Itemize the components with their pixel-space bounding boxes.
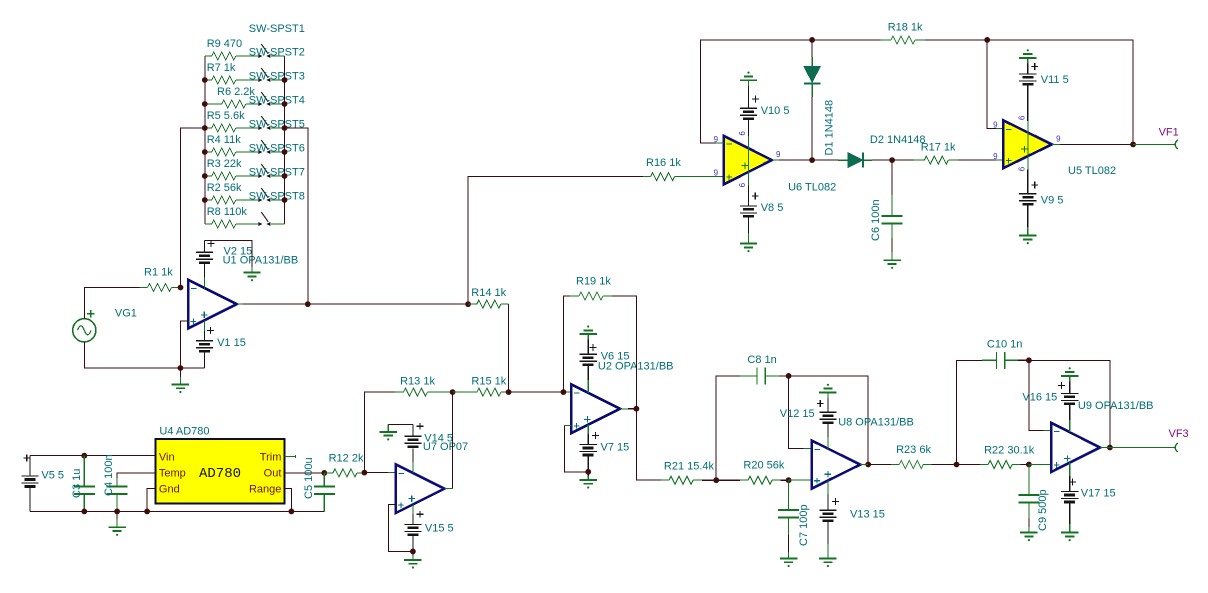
wire U9 output xyxy=(1100,447,1175,449)
svg-text:V1 15: V1 15 xyxy=(217,337,246,349)
svg-text:VG1: VG1 xyxy=(115,308,137,320)
svg-text:V8 5: V8 5 xyxy=(761,202,784,214)
svg-text:V6 15: V6 15 xyxy=(601,350,630,362)
svg-text:Gnd: Gnd xyxy=(159,484,180,496)
svg-text:R13 1k: R13 1k xyxy=(400,376,435,388)
node V7 ground junction xyxy=(585,469,591,475)
svg-text:V12 15: V12 15 xyxy=(780,408,815,420)
label SW-SPST4 xyxy=(249,95,305,107)
svg-text:R1 1k: R1 1k xyxy=(144,267,173,279)
capacitor C5 100u xyxy=(303,457,335,511)
node R1/feedback junction xyxy=(178,285,184,291)
svg-text:SW-SPST6: SW-SPST6 xyxy=(249,143,305,155)
svg-text:U6 TL082: U6 TL082 xyxy=(788,181,836,193)
svg-text:SW-SPST4: SW-SPST4 xyxy=(249,95,305,107)
wire U9 feedback xyxy=(1029,360,1110,447)
label SW-SPST7 xyxy=(249,167,305,179)
ground V13 xyxy=(819,558,836,567)
svg-text:C8 1n: C8 1n xyxy=(747,354,776,366)
wire U6 output xyxy=(772,159,812,161)
op-amp U2 OPA131/BB xyxy=(571,360,673,433)
svg-text:R2 56k: R2 56k xyxy=(207,182,242,194)
resistor R16 1k xyxy=(643,157,724,181)
pin numbers U5 xyxy=(993,116,1061,172)
svg-text:D2 1N4148: D2 1N4148 xyxy=(870,134,926,146)
wire U1 non-inverting input xyxy=(180,321,188,368)
node U2 output junction xyxy=(634,406,640,412)
wire V2 to ground xyxy=(204,240,252,267)
op-amp U9 OPA131/BB xyxy=(1051,400,1153,472)
battery V9 5 xyxy=(1019,169,1063,235)
resistor R19 1k xyxy=(563,275,636,408)
wire ground rail xyxy=(30,510,324,512)
node U5 output junction xyxy=(1130,142,1136,148)
wire feedback tap to R1 junction xyxy=(181,128,205,288)
node C8/feedback junction xyxy=(786,373,792,379)
svg-text:SW-SPST5: SW-SPST5 xyxy=(249,119,305,131)
svg-text:R21 15.4k: R21 15.4k xyxy=(664,460,715,472)
label SW-SPST3 xyxy=(249,71,305,83)
switch SW-SPST2 xyxy=(258,68,284,82)
node U6-out/D1 junction xyxy=(809,157,815,163)
ground C9 xyxy=(1020,533,1037,542)
label SW-SPST6 xyxy=(249,143,305,155)
resistor R2 value 56k xyxy=(205,182,258,204)
resistor R1 1k xyxy=(140,267,181,292)
battery V6 15 xyxy=(580,340,630,393)
svg-text:U4 AD780: U4 AD780 xyxy=(159,425,209,437)
node feedback/D1 top junction xyxy=(809,37,815,43)
battery V13 15 xyxy=(819,481,885,559)
svg-text:Trim: Trim xyxy=(260,451,282,463)
svg-text:C7 100p: C7 100p xyxy=(798,504,810,546)
svg-text:SW-SPST3: SW-SPST3 xyxy=(249,71,305,83)
wire to U8 non-inverting input xyxy=(789,479,812,481)
ground V2 xyxy=(243,267,260,281)
svg-text:U9 OPA131/BB: U9 OPA131/BB xyxy=(1078,400,1154,412)
capacitor C9 500p xyxy=(1018,465,1049,533)
wire U8 output xyxy=(860,464,891,466)
wire U1 output xyxy=(237,303,468,305)
node R21/R20/C8 junction xyxy=(713,477,719,483)
svg-text:V15 5: V15 5 xyxy=(425,522,454,534)
svg-text:R19 1k: R19 1k xyxy=(576,275,611,287)
svg-text:V5 5: V5 5 xyxy=(41,470,64,482)
svg-text:VF3: VF3 xyxy=(1169,428,1189,440)
svg-text:R14 1k: R14 1k xyxy=(471,287,506,299)
svg-text:V7 15: V7 15 xyxy=(601,442,630,454)
node R12/R13 junction xyxy=(362,470,368,476)
resistor R8 value 110k xyxy=(205,206,258,228)
svg-text:C5 100u: C5 100u xyxy=(303,457,315,499)
svg-text:C9 500p: C9 500p xyxy=(1037,489,1049,531)
resistor R7 value 1k xyxy=(205,62,258,84)
svg-text:9: 9 xyxy=(1017,116,1026,121)
op-amp U5 TL082 xyxy=(1003,120,1116,176)
svg-text:R8 110k: R8 110k xyxy=(207,206,248,218)
battery V5 5 xyxy=(21,455,64,512)
op-amp U6 TL082 xyxy=(724,136,836,193)
switch SW-SPST7 xyxy=(258,188,284,202)
svg-text:R4 11k: R4 11k xyxy=(207,134,242,146)
svg-text:U8 OPA131/BB: U8 OPA131/BB xyxy=(838,417,914,429)
resistor R4 value 11k xyxy=(205,134,258,156)
wire R13 left leg xyxy=(364,392,395,473)
wire Vin rail xyxy=(30,455,156,457)
wire U7 non-inverting input xyxy=(389,505,413,552)
op-amp U1 OPA131/BB xyxy=(188,254,298,328)
wire U8 feedback xyxy=(789,376,869,465)
svg-text:C4 100n: C4 100n xyxy=(103,454,115,496)
svg-text:Out: Out xyxy=(264,468,282,480)
svg-text:V16 15: V16 15 xyxy=(1022,391,1057,403)
battery V1 15 xyxy=(196,320,246,368)
battery V16 15 xyxy=(1022,381,1078,432)
svg-text:9: 9 xyxy=(776,150,781,159)
resistor R13 1k xyxy=(395,376,453,397)
svg-text:U5 TL082: U5 TL082 xyxy=(1068,165,1116,177)
ground V10 xyxy=(740,72,757,87)
wire R14 to R15 xyxy=(508,304,510,392)
label SW-SPST5 xyxy=(249,119,305,131)
svg-text:9: 9 xyxy=(1056,134,1061,143)
capacitor C3 1u xyxy=(71,456,95,512)
node C10/feedback junction xyxy=(1026,357,1032,363)
wire R15 to U2 xyxy=(509,391,572,393)
svg-text:R20 56k: R20 56k xyxy=(743,460,784,472)
resistor R21 15.4k xyxy=(661,460,716,484)
svg-text:9: 9 xyxy=(1017,167,1026,172)
switch SW-SPST6 xyxy=(258,164,284,178)
svg-text:AD780: AD780 xyxy=(199,466,241,482)
wire VG1 to ground rail xyxy=(84,342,204,368)
switch SW-SPST4 xyxy=(258,116,284,130)
battery V17 15 xyxy=(1061,462,1116,532)
terminal VF3 xyxy=(1169,428,1189,452)
wire to U9 non-inverting input xyxy=(1029,464,1052,466)
wire U5 inverting input xyxy=(987,40,1003,128)
svg-text:C10 1n: C10 1n xyxy=(987,338,1022,350)
resistor R17 1k xyxy=(892,142,1003,164)
resistor R6 value 2.2k xyxy=(205,86,258,108)
svg-text:R16 1k: R16 1k xyxy=(646,157,681,169)
node V15 ground junction xyxy=(410,549,416,555)
node output/R14 junction xyxy=(465,301,471,307)
wire U2 non-inverting input xyxy=(564,425,588,471)
node ground-rail junction xyxy=(178,365,184,371)
node output/ladder junction xyxy=(305,301,311,307)
resistor R9 value 470 xyxy=(205,38,258,60)
ground V15 xyxy=(404,551,421,568)
svg-text:V9 5: V9 5 xyxy=(1041,195,1064,207)
node R22/C9/U9+ junction xyxy=(1026,462,1032,468)
wire VG1 to R1 xyxy=(84,288,139,319)
node U9 output junction xyxy=(1107,445,1113,451)
node R15/R14 junction xyxy=(506,389,512,395)
diode D2 1N4148 xyxy=(812,134,925,168)
ground V17 xyxy=(1061,533,1078,542)
resistor R14 1k xyxy=(468,287,509,308)
resistor R18 1k xyxy=(812,21,987,44)
node U2 inverting junction xyxy=(561,389,567,395)
label SW-SPST2 xyxy=(249,47,305,59)
svg-text:V11 5: V11 5 xyxy=(1041,74,1069,86)
battery V12 15 xyxy=(780,398,837,449)
node R18/U5-feedback junction xyxy=(984,37,990,43)
svg-text:V14 5: V14 5 xyxy=(424,432,453,444)
svg-text:9: 9 xyxy=(737,131,746,136)
ladder bus junctions xyxy=(202,77,287,203)
wire Range pin xyxy=(284,489,291,512)
switch SW-SPST1 xyxy=(258,44,284,58)
svg-text:R7 1k: R7 1k xyxy=(207,62,236,74)
svg-text:Vin: Vin xyxy=(159,451,175,463)
ground V8 xyxy=(740,244,757,253)
capacitor C6 100n xyxy=(870,160,903,260)
label SW-SPST8 xyxy=(249,191,305,203)
wire R12 to U7 xyxy=(364,472,395,474)
wire R18 to U5 output xyxy=(987,40,1133,144)
resistor R22 30.1k xyxy=(957,444,1035,468)
ground V14 xyxy=(380,424,413,440)
svg-text:9: 9 xyxy=(714,169,719,178)
ground V7 xyxy=(580,472,597,489)
battery V2 15 xyxy=(196,240,252,289)
svg-text:V17 15: V17 15 xyxy=(1081,487,1116,499)
pin Trim stub xyxy=(284,455,295,458)
pin numbers U6 xyxy=(714,131,781,188)
op-amp U7 OP07 xyxy=(396,441,468,513)
voltage source VG1 xyxy=(73,308,137,342)
resistor R20 56k xyxy=(716,460,788,485)
node Out/C5 junction xyxy=(321,470,327,476)
resistor R15 1k xyxy=(453,376,509,397)
svg-text:C6 100n: C6 100n xyxy=(870,199,882,241)
wire U6 inverting input loop xyxy=(701,40,813,143)
svg-text:VF1: VF1 xyxy=(1159,127,1179,139)
wire to VF1 terminal xyxy=(1133,143,1175,145)
svg-text:V10 5: V10 5 xyxy=(761,105,790,117)
svg-text:V13 15: V13 15 xyxy=(850,509,885,521)
op-amp U8 OPA131/BB xyxy=(812,417,914,489)
wire Gnd pin xyxy=(147,489,156,512)
battery V14 5 xyxy=(404,423,453,473)
svg-text:Range: Range xyxy=(249,484,281,496)
node D2/C6/R17 junction xyxy=(889,157,895,163)
ground U1 xyxy=(172,368,189,393)
ground C6 xyxy=(883,260,900,269)
switch SW-SPST3 xyxy=(258,92,284,106)
rail junction dots xyxy=(81,509,294,515)
capacitor C10 1n xyxy=(957,338,1029,464)
terminal VF1 xyxy=(1159,127,1179,150)
resistor R12 2k xyxy=(324,452,364,477)
ground V16 xyxy=(1061,367,1078,381)
wire output node to R16 xyxy=(468,177,643,305)
wire output bus (ladder right) xyxy=(284,56,286,224)
ground V9 xyxy=(1019,236,1036,245)
svg-text:R9 470: R9 470 xyxy=(207,38,242,50)
diode D1 1N4148 xyxy=(804,40,836,160)
svg-text:R22 30.1k: R22 30.1k xyxy=(984,444,1035,456)
svg-text:V2 15: V2 15 xyxy=(224,246,253,258)
battery V8 5 xyxy=(740,186,783,244)
battery V10 5 xyxy=(740,86,790,136)
node R23/R22/C10 junction xyxy=(954,462,960,468)
ground rail ground xyxy=(108,511,125,536)
svg-text:D1 1N4148: D1 1N4148 xyxy=(824,100,836,156)
wire Temp to C4 xyxy=(117,473,156,478)
wire Out pin xyxy=(284,472,324,474)
capacitor C4 100n xyxy=(103,454,128,511)
node R13/R15/U7-out junction xyxy=(450,389,456,395)
svg-text:SW-SPST1: SW-SPST1 xyxy=(249,23,305,35)
switch SW-SPST5 xyxy=(258,140,284,154)
label SW-SPST1 xyxy=(249,23,305,35)
battery V15 5 xyxy=(404,505,453,552)
svg-text:SW-SPST7: SW-SPST7 xyxy=(249,167,305,179)
capacitor C7 100p xyxy=(778,480,810,558)
resistor R3 value 22k xyxy=(205,158,258,180)
svg-text:9: 9 xyxy=(993,152,998,161)
ground V6 xyxy=(580,325,597,339)
svg-text:Temp: Temp xyxy=(159,468,186,480)
resistor R23 6k xyxy=(891,444,957,469)
svg-text:R12 2k: R12 2k xyxy=(329,452,364,464)
resistor R5 value 5.6k xyxy=(205,110,258,132)
wire ladder to op-amp output xyxy=(285,128,308,304)
node U8 output junction xyxy=(865,462,871,468)
svg-text:R18 1k: R18 1k xyxy=(888,21,923,33)
wire U2 output xyxy=(620,409,661,480)
wire U7 output xyxy=(444,392,452,489)
node C3 top junction xyxy=(81,453,87,459)
wire U9 inverting input xyxy=(1029,360,1052,430)
wire inverting-input bus (ladder left) xyxy=(204,56,206,224)
ground V11 xyxy=(1019,49,1036,63)
ground C7 xyxy=(780,558,797,567)
wire U5 output xyxy=(1052,143,1133,145)
wire U8 inverting input xyxy=(789,376,812,448)
capacitor C8 1n xyxy=(716,354,788,480)
svg-text:R3 22k: R3 22k xyxy=(207,158,242,170)
svg-text:SW-SPST2: SW-SPST2 xyxy=(249,47,305,59)
svg-text:9: 9 xyxy=(737,183,746,188)
svg-text:9: 9 xyxy=(993,120,998,129)
node R20/C7/U8+ junction xyxy=(786,477,792,483)
svg-text:R17 1k: R17 1k xyxy=(921,142,956,154)
battery V7 15 xyxy=(580,425,630,472)
svg-text:R15 1k: R15 1k xyxy=(471,376,506,388)
svg-text:R5 5.6k: R5 5.6k xyxy=(207,110,245,122)
ground V12 xyxy=(819,384,836,398)
svg-text:R23 6k: R23 6k xyxy=(896,444,931,456)
switch SW-SPST8 xyxy=(258,212,284,226)
svg-text:SW-SPST8: SW-SPST8 xyxy=(249,191,305,203)
battery V11 5 xyxy=(1019,63,1069,121)
svg-text:C3 1u: C3 1u xyxy=(71,469,83,498)
IC U4 AD780 xyxy=(156,425,285,503)
